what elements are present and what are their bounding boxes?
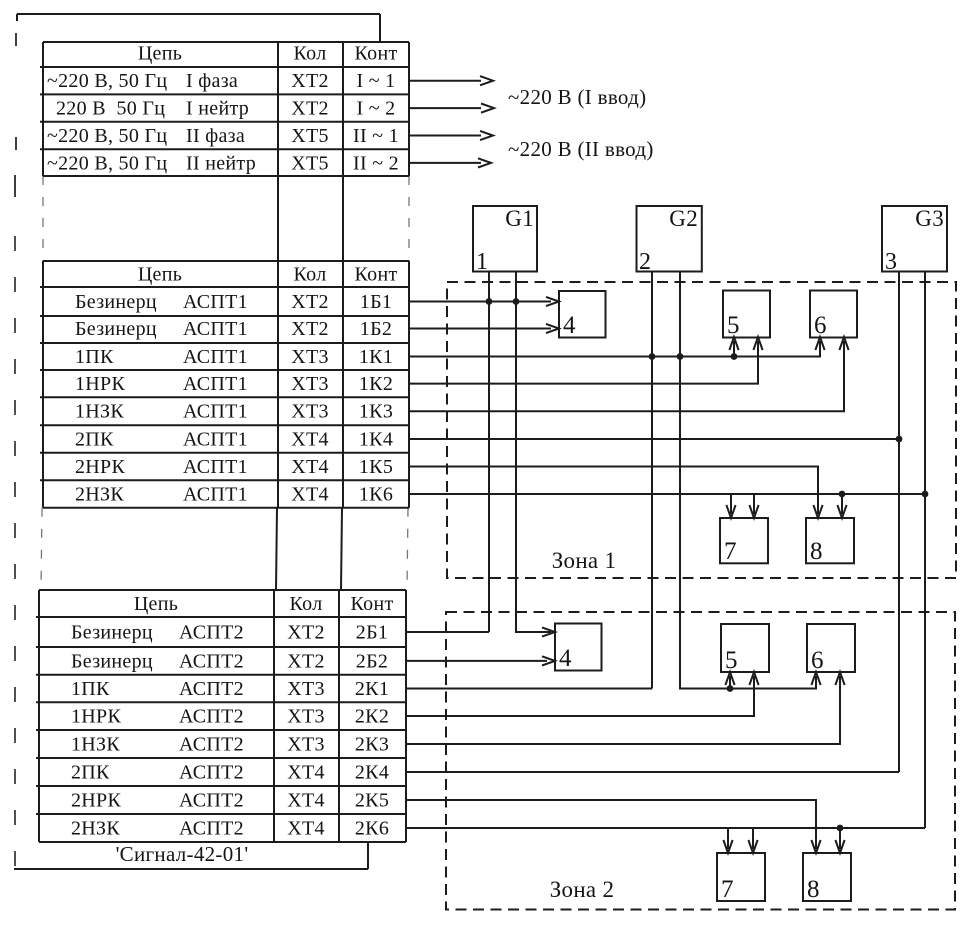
wire 1K4 to G3 lead a [409,438,899,440]
junction dot 1K6 box8 feed [839,491,846,498]
table block 2 texts [75,264,398,506]
svg-text:ХТ3: ХТ3 [291,401,329,423]
wire I~1 phase output [409,76,493,85]
svg-text:Безинерц: Безинерц [71,622,153,644]
junction dot 1K4-G3a [896,436,903,443]
svg-text:2ПК: 2ПК [71,762,110,784]
svg-text:2Б1: 2Б1 [356,622,388,644]
wire II~1 phase output [409,131,493,140]
svg-text:2НЗК: 2НЗК [75,484,124,506]
svg-text:Безинерц: Безинерц [75,318,157,340]
svg-text:ХТ3: ХТ3 [287,678,325,700]
svg-text:1НЗК: 1НЗК [75,401,124,423]
table block 1 texts [47,43,399,175]
svg-text:8: 8 [807,876,820,903]
svg-text:ХТ2: ХТ2 [291,98,329,120]
svg-text:1К1: 1К1 [359,346,393,368]
svg-text:АСПТ2: АСПТ2 [179,706,244,728]
svg-text:I фаза: I фаза [186,70,238,92]
svg-text:ХТ3: ХТ3 [291,346,329,368]
svg-text:АСПТ2: АСПТ2 [179,790,244,812]
svg-text:2К4: 2К4 [355,762,389,784]
zone1 box 7 [720,518,768,565]
svg-text:ХТ4: ХТ4 [287,818,325,840]
svg-text:1НРК: 1НРК [71,706,121,728]
junction dot 1B1-G1a [486,298,493,305]
svg-text:ХТ5: ХТ5 [291,125,329,147]
svg-text:2К1: 2К1 [355,678,389,700]
svg-text:~220 В, 50 Гц: ~220 В, 50 Гц [47,70,167,92]
svg-text:АСПТ1: АСПТ1 [183,456,248,478]
svg-text:Безинерц: Безинерц [75,291,157,313]
zone1 box 4 [559,291,606,339]
svg-text:ХТ2: ХТ2 [291,70,329,92]
svg-text:Цепь: Цепь [138,43,182,65]
svg-text:ХТ2: ХТ2 [287,622,325,644]
svg-text:АСПТ2: АСПТ2 [179,622,244,644]
svg-text:4: 4 [563,312,576,339]
table edge lines between blocks (faint) [41,176,409,590]
svg-text:II ~ 1: II ~ 1 [353,125,399,147]
svg-text:ХТ4: ХТ4 [291,484,329,506]
svg-text:2: 2 [639,249,651,275]
svg-text:1НЗК: 1НЗК [71,734,120,756]
svg-text:ХТ2: ХТ2 [291,318,329,340]
svg-text:АСПТ1: АСПТ1 [183,318,248,340]
svg-text:2К6: 2К6 [355,818,389,840]
junction dot zone2 box5 feed [727,685,734,692]
svg-text:ХТ4: ХТ4 [287,762,325,784]
svg-text:7: 7 [724,538,737,565]
label ~220V input II [508,137,654,161]
wire 2K6 long wire [406,827,925,829]
wire arrow into zone1 box7 left [726,494,735,518]
zone2 box 8 [803,853,851,903]
svg-text:Безинерц: Безинерц [71,650,153,672]
svg-text:АСПТ2: АСПТ2 [179,678,244,700]
wire 2K5 to zone2 box8 left [406,800,821,853]
svg-text:АСПТ1: АСПТ1 [183,291,248,313]
device enclosure bottom border [14,842,368,869]
svg-text:ХТ5: ХТ5 [291,152,329,174]
svg-text:1ПК: 1ПК [71,678,110,700]
pin 2 label of G2 [639,249,651,275]
junction dot 1K1 box5 feed [731,353,738,360]
wire 1K1 to zone1 box5 box6 [409,337,825,357]
svg-text:ХТ4: ХТ4 [291,429,329,451]
svg-text:Цепь: Цепь [134,593,178,615]
svg-text:1ПК: 1ПК [75,346,114,368]
svg-text:1К5: 1К5 [359,456,393,478]
annunciator G3 box [882,206,947,272]
svg-text:1К2: 1К2 [359,373,393,395]
zone2 box 5 [721,624,769,674]
junction dot 1K6-G3b [922,491,929,498]
wire arrow into zone2 box5 left [725,672,734,689]
svg-text:4: 4 [559,645,572,672]
zone1 box 5 [723,291,770,340]
svg-text:2К5: 2К5 [355,790,389,812]
label zone 1 [552,548,617,573]
table block 3 texts [71,593,394,840]
pin 3 label of G3 [885,249,897,275]
zone2 box 7 [717,853,765,903]
table column lines between blocks [276,176,343,590]
wire arrow into zone1 box8 right [837,494,846,518]
svg-text:I ~ 1: I ~ 1 [357,70,396,92]
wire 1K3 to zone1 box6 right [409,337,849,411]
svg-text:Конт: Конт [355,264,398,286]
svg-text:ХТ4: ХТ4 [291,456,329,478]
wire G2 pin lead b (to zone2 box5 box6) [680,272,821,689]
svg-text:ХТ2: ХТ2 [291,291,329,313]
svg-text:II ~ 2: II ~ 2 [353,152,399,174]
zone1 box 6 [810,291,857,340]
wire 1K5 to zone1 box8 left [409,467,823,519]
svg-text:АСПТ1: АСПТ1 [183,401,248,423]
zone2 box 4 [555,624,602,673]
svg-text:АСПТ1: АСПТ1 [183,484,248,506]
wire arrow into zone1 box5 left [729,337,738,357]
svg-text:2НРК: 2НРК [75,456,125,478]
svg-text:АСПТ1: АСПТ1 [183,373,248,395]
wire G3 pin lead b (to 2K6) [924,272,926,829]
svg-text:1: 1 [476,249,488,275]
pin 1 label of G1 [476,249,488,275]
junction dot 1K1-G2a [649,353,656,360]
svg-text:'Сигнал-42-01': 'Сигнал-42-01' [116,842,249,866]
svg-text:Кол: Кол [294,43,327,65]
wire 1K6 long wire [409,493,925,495]
svg-text:ХТ4: ХТ4 [287,790,325,812]
svg-text:5: 5 [727,312,740,339]
junction dot 1B1-G1b [513,298,520,305]
svg-text:6: 6 [814,312,827,339]
svg-text:АСПТ1: АСПТ1 [183,429,248,451]
svg-text:~220 В, 50 Гц: ~220 В, 50 Гц [47,125,167,147]
wire 1B1 to zone1 box4 [409,297,559,306]
svg-text:ХТ3: ХТ3 [287,734,325,756]
annunciator G1 box [473,206,537,272]
svg-text:Зона 1: Зона 1 [552,548,617,573]
svg-text:1К6: 1К6 [359,484,393,506]
wire arrow into zone2 box7 left [723,828,732,853]
wire arrow into zone2 box8 right [835,828,844,853]
wire G2 pin lead a (to 2K1) [651,272,653,689]
device Signal-42-01 enclosure top border [17,14,380,42]
wire 2K4 to G3 lead a [406,771,899,773]
label Signal-42-01 [116,842,249,866]
svg-text:220 В 50 Гц: 220 В 50 Гц [56,98,165,120]
junction dot 2K6 box8 feed [837,825,844,832]
wire G3 pin lead a (to 2K4) [898,272,900,773]
svg-text:ХТ2: ХТ2 [287,650,325,672]
svg-text:2НЗК: 2НЗК [71,818,120,840]
zone 2 dashed boundary [446,612,955,910]
terminal table block 1 grid (power rows) [40,42,409,176]
svg-text:1Б1: 1Б1 [360,291,392,313]
svg-text:G3: G3 [915,206,944,231]
svg-text:1К4: 1К4 [359,429,393,451]
label zone 2 [550,877,615,902]
svg-text:~220 В (I ввод): ~220 В (I ввод) [508,85,646,109]
svg-text:АСПТ1: АСПТ1 [183,346,248,368]
svg-text:3: 3 [885,249,897,275]
terminal table block 3 grid (ASPT2 rows) [36,590,406,842]
svg-text:АСПТ2: АСПТ2 [179,762,244,784]
wire 2B1 to G1 lead a [406,631,489,633]
svg-text:1Б2: 1Б2 [360,318,392,340]
svg-text:7: 7 [721,876,734,903]
svg-text:Кол: Кол [294,264,327,286]
annunciator G2 box [637,206,702,272]
svg-text:G1: G1 [505,206,534,231]
svg-text:2ПК: 2ПК [75,429,114,451]
zone 1 dashed boundary [447,282,956,578]
svg-text:6: 6 [811,647,824,674]
svg-text:II нейтр: II нейтр [186,152,256,174]
svg-text:АСПТ2: АСПТ2 [179,650,244,672]
wire G1 pin lead b (to zone2 box4) [516,272,555,637]
svg-text:G2: G2 [669,206,698,231]
wire I~2 neutral output [409,104,494,113]
wire 2K3 to zone2 box6 right [406,672,845,744]
svg-text:I ~ 2: I ~ 2 [357,98,396,120]
wire 2K2 to zone2 box5 right [406,672,759,716]
svg-text:5: 5 [725,647,738,674]
label ~220V input I [508,85,646,109]
svg-text:2К2: 2К2 [355,706,389,728]
svg-text:1НРК: 1НРК [75,373,125,395]
zone1 box 8 [806,518,854,565]
svg-text:8: 8 [810,538,823,565]
svg-text:I нейтр: I нейтр [186,98,249,120]
device enclosure left border (dashed) [15,33,16,869]
svg-text:II фаза: II фаза [186,125,245,147]
wire arrow into zone1 box7 right [749,494,758,518]
svg-text:Зона 2: Зона 2 [550,877,615,902]
svg-text:~220 В, 50 Гц: ~220 В, 50 Гц [47,152,167,174]
svg-text:ХТ3: ХТ3 [291,373,329,395]
svg-text:2НРК: 2НРК [71,790,121,812]
svg-text:Цепь: Цепь [138,264,182,286]
wire arrow into zone2 box7 right [748,828,757,853]
wire 2K1 to G2 lead a [406,688,652,690]
svg-text:2Б2: 2Б2 [356,650,388,672]
junction dot 1K1-G2b [677,353,684,360]
zone2 box 6 [807,624,855,674]
terminal table block 2 grid (ASPT1 rows) [40,261,409,508]
svg-text:Кол: Кол [290,593,323,615]
svg-text:Конт: Конт [351,593,394,615]
wire II~2 neutral output [409,158,491,167]
svg-text:АСПТ2: АСПТ2 [179,734,244,756]
svg-text:ХТ3: ХТ3 [287,706,325,728]
svg-text:1К3: 1К3 [359,401,393,423]
wire 2B2 to zone2 box4 [406,656,555,665]
wire 1K2 to zone1 box5 right [409,337,763,384]
wire G1 pin lead a (to 2B1) [488,272,490,633]
svg-text:АСПТ2: АСПТ2 [179,818,244,840]
svg-text:Конт: Конт [355,43,398,65]
wire 1B2 to zone1 box4 [409,324,559,333]
svg-text:2К3: 2К3 [355,734,389,756]
svg-text:~220 В (II ввод): ~220 В (II ввод) [508,137,654,161]
